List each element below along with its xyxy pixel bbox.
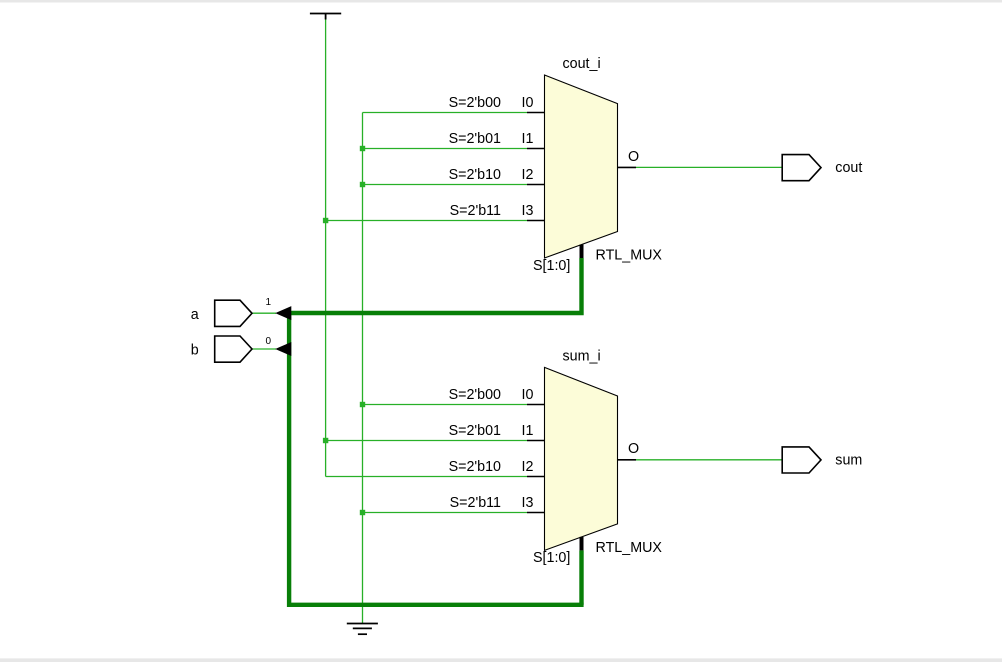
svg-text:S=2'b10: S=2'b10: [449, 167, 501, 183]
svg-text:RTL_MUX: RTL_MUX: [596, 247, 663, 263]
svg-text:O: O: [628, 149, 639, 165]
svg-text:sum: sum: [835, 453, 862, 469]
svg-text:S=2'b00: S=2'b00: [449, 95, 501, 111]
svg-text:S=2'b00: S=2'b00: [449, 387, 501, 403]
svg-text:sum_i: sum_i: [563, 348, 601, 364]
svg-text:RTL_MUX: RTL_MUX: [596, 540, 663, 556]
svg-text:I1: I1: [522, 131, 534, 147]
svg-text:S=2'b10: S=2'b10: [449, 459, 501, 475]
svg-text:S[1:0]: S[1:0]: [533, 550, 570, 566]
svg-text:I2: I2: [522, 459, 534, 475]
svg-text:I3: I3: [522, 495, 534, 511]
svg-text:b: b: [191, 343, 199, 359]
svg-text:S=2'b01: S=2'b01: [449, 131, 501, 147]
svg-text:cout_i: cout_i: [563, 56, 601, 72]
svg-text:I0: I0: [522, 387, 534, 403]
svg-text:S[1:0]: S[1:0]: [533, 258, 570, 274]
svg-text:a: a: [191, 307, 199, 323]
svg-text:I1: I1: [522, 423, 534, 439]
svg-text:I3: I3: [522, 203, 534, 219]
svg-text:I0: I0: [522, 95, 534, 111]
svg-text:S=2'b11: S=2'b11: [450, 203, 501, 219]
svg-text:S=2'b11: S=2'b11: [450, 495, 501, 511]
svg-text:O: O: [628, 441, 639, 457]
svg-text:S=2'b01: S=2'b01: [449, 423, 501, 439]
svg-text:0: 0: [266, 336, 272, 347]
svg-text:1: 1: [266, 297, 272, 308]
svg-text:cout: cout: [835, 160, 862, 176]
svg-text:I2: I2: [522, 167, 534, 183]
